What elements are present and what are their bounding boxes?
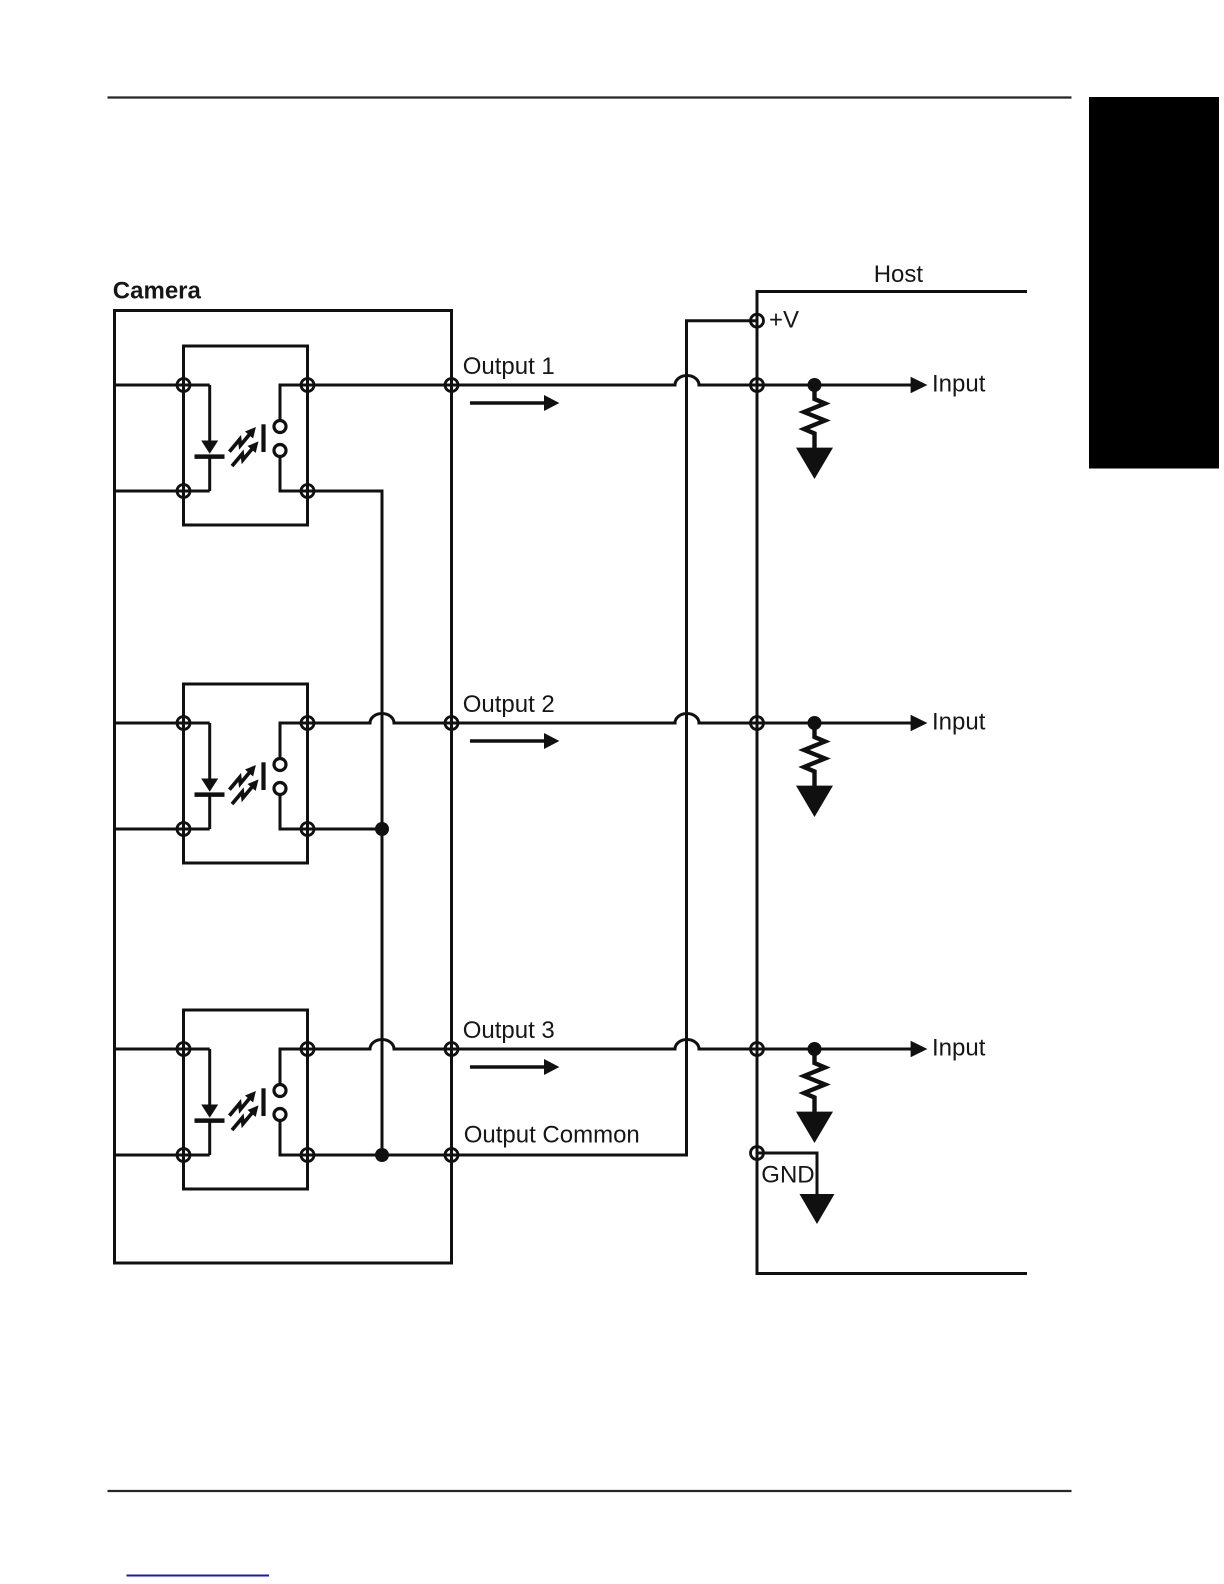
wire: channel 2 return to internal common bus bbox=[308, 828, 383, 831]
wire: GND terminal to ground arrow bbox=[757, 1153, 817, 1196]
LED D3 (emitter diode) bbox=[208, 1049, 211, 1105]
pull-down resistor R2 with ground arrow bbox=[796, 723, 833, 817]
pin terminal top-left, channel 1 bbox=[177, 379, 190, 392]
photodetector plate, channel 1 bbox=[261, 424, 265, 452]
optocoupler channel 3 (solid-state relay) bbox=[115, 1010, 315, 1189]
photodetector plate, channel 2 bbox=[261, 762, 265, 790]
optocoupler package outline, channel 1 bbox=[184, 346, 308, 525]
pin terminal top-left, channel 3 bbox=[177, 1043, 190, 1056]
pull-down resistor R1 with ground arrow bbox=[796, 385, 833, 479]
pin terminal top-left, channel 2 bbox=[177, 717, 190, 730]
wire: Output 2 row (camera to host input) bbox=[308, 714, 912, 724]
host connector terminal: Input 2 bbox=[751, 717, 764, 730]
pin terminal bottom-right, channel 1 bbox=[301, 485, 314, 498]
junction node: host input 1 bbox=[808, 378, 822, 392]
wire: contact to top-right pin, channel 3 bbox=[280, 1049, 308, 1085]
light arrow 2, channel 2 bbox=[232, 780, 258, 804]
svg-text:Output Common: Output Common bbox=[464, 1121, 640, 1148]
wire: contact to bottom-right pin, channel 2 bbox=[280, 795, 308, 830]
wire: camera left rail to LED anode, channel 1 bbox=[115, 384, 210, 387]
ground arrow (host GND) bbox=[800, 1194, 835, 1224]
pin terminal top-right, channel 2 bbox=[301, 717, 314, 730]
svg-text:Host: Host bbox=[874, 261, 924, 288]
svg-text:Input: Input bbox=[932, 370, 986, 397]
wire: Output 3 row (camera to host input) bbox=[308, 1040, 912, 1050]
light arrow 1, channel 3 bbox=[229, 1092, 255, 1116]
svg-text:GND: GND bbox=[761, 1162, 814, 1189]
pin terminal bottom-left, channel 2 bbox=[177, 823, 190, 836]
photodetector plate, channel 3 bbox=[261, 1088, 265, 1116]
arrowhead: Input 2 bbox=[911, 715, 928, 731]
wire: camera left rail to LED anode, channel 2 bbox=[115, 722, 210, 725]
wire: contact to bottom-right pin, channel 3 bbox=[280, 1121, 308, 1156]
light arrow 1, channel 1 bbox=[229, 428, 255, 452]
wire: contact to top-right pin, channel 1 bbox=[280, 385, 308, 421]
camera connector terminal: Output 2 bbox=[445, 717, 458, 730]
output contact circles, channel 2 bbox=[274, 759, 286, 771]
junction node: host input 3 bbox=[808, 1042, 822, 1056]
light arrow 2, channel 3 bbox=[232, 1106, 258, 1130]
wire: channel 1 return to internal common bus bbox=[308, 491, 383, 1155]
svg-text:Output 1: Output 1 bbox=[463, 353, 555, 380]
pin terminal bottom-left, channel 1 bbox=[177, 485, 190, 498]
pin terminal top-right, channel 1 bbox=[301, 379, 314, 392]
output contact circles, channel 1 bbox=[274, 421, 286, 433]
svg-text:+V: +V bbox=[769, 307, 799, 334]
pull-down resistor R3 with ground arrow bbox=[796, 1049, 833, 1143]
wire: Output 1 row (camera to host input) bbox=[308, 376, 912, 385]
signal direction arrow, Output 1 bbox=[470, 401, 544, 405]
wire: camera left rail to LED cathode return, channel 2 bbox=[115, 828, 210, 831]
LED D1 (emitter diode) bbox=[208, 385, 211, 441]
camera connector terminal: Output 1 bbox=[445, 379, 458, 392]
arrowhead: Input 3 bbox=[911, 1041, 928, 1057]
wire: contact to bottom-right pin, channel 1 bbox=[280, 457, 308, 492]
svg-text:Output 3: Output 3 bbox=[463, 1017, 555, 1044]
signal direction arrow, Output 3 bbox=[470, 1065, 544, 1069]
junction: channel 2 return on common bus bbox=[375, 822, 389, 836]
page footer rule bbox=[108, 1490, 1072, 1492]
optocoupler package outline, channel 2 bbox=[184, 684, 308, 863]
output contact circles, channel 3 bbox=[274, 1085, 286, 1097]
host connector terminal: Input 1 bbox=[751, 379, 764, 392]
LED D2 (emitter diode) bbox=[208, 723, 211, 779]
redacted black block (top right) bbox=[1089, 97, 1219, 469]
Host enclosure outline bbox=[757, 292, 1027, 1274]
svg-text:Input: Input bbox=[932, 1034, 986, 1061]
footer hyperlink underline bbox=[127, 1575, 270, 1577]
wire: camera left rail to LED cathode return, channel 3 bbox=[115, 1154, 210, 1157]
host connector terminal: GND bbox=[751, 1147, 764, 1160]
arrowhead: Input 1 bbox=[911, 377, 928, 393]
pin terminal bottom-right, channel 2 bbox=[301, 823, 314, 836]
svg-text:Output 2: Output 2 bbox=[463, 691, 555, 718]
Camera enclosure box bbox=[115, 311, 452, 1264]
host connector terminal: +V bbox=[751, 314, 764, 327]
light arrow 2, channel 1 bbox=[232, 442, 258, 466]
page header rule bbox=[108, 96, 1072, 98]
signal direction arrow, Output 2 bbox=[470, 739, 544, 743]
optocoupler channel 1 (solid-state relay) bbox=[115, 346, 315, 525]
svg-text:Input: Input bbox=[932, 708, 986, 735]
camera connector terminal: Output Common bbox=[445, 1149, 458, 1162]
camera connector terminal: Output 3 bbox=[445, 1043, 458, 1056]
wire: Output Common row to host +V rail bbox=[308, 321, 758, 1155]
svg-text:Camera: Camera bbox=[113, 278, 202, 305]
junction node: host input 2 bbox=[808, 716, 822, 730]
wire: camera left rail to LED anode, channel 3 bbox=[115, 1048, 210, 1051]
junction: common bus joins Output Common row bbox=[375, 1148, 389, 1162]
wire: camera left rail to LED cathode return, channel 1 bbox=[115, 490, 210, 493]
pin terminal bottom-right, channel 3 bbox=[301, 1149, 314, 1162]
wire: contact to top-right pin, channel 2 bbox=[280, 723, 308, 759]
host connector terminal: Input 3 bbox=[751, 1043, 764, 1056]
pin terminal top-right, channel 3 bbox=[301, 1043, 314, 1056]
pin terminal bottom-left, channel 3 bbox=[177, 1149, 190, 1162]
optocoupler package outline, channel 3 bbox=[184, 1010, 308, 1189]
optocoupler channel 2 (solid-state relay) bbox=[115, 684, 315, 863]
light arrow 1, channel 2 bbox=[229, 766, 255, 790]
